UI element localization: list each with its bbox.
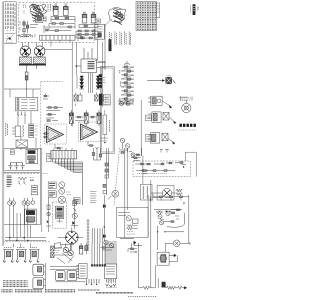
resistor rows R10x (49, 23, 75, 32)
lamps L3 L4 (22, 198, 30, 205)
remote parts row1 (135, 162, 186, 168)
dark cell stack DR1 (99, 74, 106, 88)
selector rows box SW1 (16, 97, 38, 110)
output caps column (51, 246, 54, 258)
filter cap CE1 (69, 110, 73, 126)
relay K3 (25, 209, 37, 225)
meter circle MT (108, 190, 119, 199)
battery cells BT1-3 (8, 163, 25, 170)
section frame lower (4, 148, 42, 232)
solenoid loop S1 (33, 264, 44, 275)
opto pair OP1 (74, 93, 82, 107)
aux text 140 (180, 97, 189, 100)
dashed switch box (53, 202, 67, 228)
amp block box (117, 207, 149, 237)
header side box (47, 153, 51, 161)
output arrow A1 (147, 76, 175, 84)
small parts right of plate (78, 33, 85, 41)
pin ticks row (86, 279, 99, 285)
transformer secondary T1b (34, 57, 46, 63)
driver pair Q5 Q6 (120, 138, 130, 153)
link line to J1 (105, 19, 112, 26)
relay group RL2 (149, 112, 177, 124)
filter cap CE2 (84, 110, 88, 126)
load resistors LR (103, 163, 108, 193)
harness verticals (3, 205, 51, 247)
mid verticals lower (104, 100, 148, 241)
switch block text (7, 176, 12, 186)
sense parts SN1 (128, 243, 139, 288)
ribbon wires RW (91, 243, 106, 266)
verticals behind amps (72, 42, 102, 126)
connector block J1 (95, 19, 105, 70)
lower right network (153, 194, 185, 251)
pin header PH (51, 151, 82, 206)
header top stubs (54, 148, 102, 160)
xfmr primary box X1 (16, 140, 28, 148)
zig box ZB (140, 184, 152, 200)
footer dotted line (128, 296, 157, 298)
dashed enclosure DB1 (19, 2, 94, 42)
inter-box text bits (20, 5, 26, 32)
pcb label strip (109, 39, 112, 51)
power amp IC1 (42, 124, 72, 144)
parts table TBL (136, 2, 160, 31)
top right chain (154, 196, 189, 204)
remote parts row2 (136, 170, 175, 174)
scribble A labels (48, 4, 53, 12)
amp box side text (150, 197, 152, 202)
motor M2 transformer (3, 248, 14, 263)
motor cap MC1 (165, 240, 190, 247)
notes box N1 (4, 2, 17, 44)
resistor bank rows RB2 (76, 30, 98, 39)
electrolytic cap C201 (82, 12, 87, 23)
transformer secondary T1a (20, 57, 32, 63)
power amp IC2 (76, 122, 103, 142)
relay K2 (26, 149, 38, 163)
drive module DM1 (76, 264, 87, 279)
motor scribble B (108, 7, 126, 25)
side chain SC1 (46, 198, 51, 233)
divider dashed (4, 173, 48, 175)
rc pair mid (133, 154, 149, 174)
bottom RC chain (139, 277, 187, 290)
side group SG1 (43, 94, 49, 138)
coil loop H1 (56, 271, 66, 281)
legend footer text (2, 290, 134, 293)
system IC U20 (105, 241, 118, 287)
notes sketch flag (5, 34, 16, 43)
inter-cap resistors (75, 116, 97, 120)
pin label columns (110, 32, 131, 46)
selector arrows (17, 112, 26, 116)
az meter pair (48, 182, 80, 204)
mechanism plate K1 (40, 35, 76, 40)
left marks of plate row (17, 34, 35, 37)
transformer core bar (19, 64, 46, 66)
diode on drop (103, 204, 142, 245)
bridge rectifier D2 (34, 46, 45, 57)
power chain PC (71, 199, 78, 230)
relay group RL1 (148, 96, 172, 108)
page border left double line (2, 2, 4, 247)
wires block left (4, 89, 40, 150)
tape transport box TT (157, 252, 178, 265)
title block text (190, 4, 198, 15)
dashed sub-border mid (41, 82, 63, 151)
bridge rectifier D1 (20, 46, 31, 57)
power entry module PM1 (12, 124, 37, 138)
mid column module M1 (98, 61, 114, 153)
main switch MS (56, 206, 64, 222)
solenoid loop S2 (33, 278, 44, 289)
filter cap CE3 (97, 110, 101, 126)
ladder labels (119, 70, 122, 103)
motor M4 transformer (29, 248, 40, 263)
preamp parts rows (46, 107, 63, 122)
bottom transistor cluster (101, 240, 115, 250)
wire bridge feeds (23, 42, 73, 49)
right bus lines (151, 180, 189, 288)
counter circuit (151, 186, 183, 200)
lamps L1 L2 (8, 198, 16, 205)
connector block CN2 (99, 94, 110, 106)
power transistors Q10 Q11 (60, 243, 74, 255)
parts PX (84, 243, 89, 254)
coil loop H2 (67, 271, 77, 281)
electrolytic cap C102 (64, 4, 69, 16)
dashed remote box (133, 161, 191, 177)
cluster above remote box (129, 150, 169, 158)
speaker SP1 (181, 97, 193, 113)
bus under C201/C202 (79, 25, 98, 28)
battery box BB1 (4, 149, 41, 173)
tick ladder TL (87, 219, 103, 250)
mid links CL2 (30, 16, 70, 46)
solenoid bus (44, 263, 46, 290)
lamp L5 (31, 198, 35, 205)
opto pair OP2 (95, 93, 109, 102)
diag dashed line (114, 148, 120, 205)
meter box MB1 (31, 186, 38, 195)
heater ladder LD1 (121, 61, 134, 106)
bus under caps (51, 17, 75, 23)
head assembly scribble A (30, 4, 47, 21)
lower-left tilt box (53, 243, 61, 253)
bridge B2 (58, 228, 84, 251)
cap CE10 (79, 243, 82, 254)
component column CL1 (20, 20, 34, 37)
link boxes LB (145, 115, 151, 141)
head connector U10 (33, 14, 47, 23)
diode array D10-D17 (77, 73, 102, 93)
amp lower parts (55, 142, 99, 150)
motor M3 transformer (16, 248, 27, 263)
regulator IC U1 (75, 48, 106, 73)
bias network BN1 (118, 98, 134, 106)
pad row PR1 (179, 124, 197, 130)
primary lead with fuse F1 (25, 66, 36, 92)
resistor RS1 (18, 177, 34, 185)
solid corner frame (185, 152, 196, 176)
margin label text (6, 123, 8, 136)
junction fan (50, 248, 86, 282)
relay group RL3 (149, 133, 176, 145)
label text col (91, 192, 97, 203)
electrolytic cap C101 (54, 4, 59, 16)
electrolytic cap C202 (91, 12, 96, 23)
connector text rows (3, 281, 28, 287)
